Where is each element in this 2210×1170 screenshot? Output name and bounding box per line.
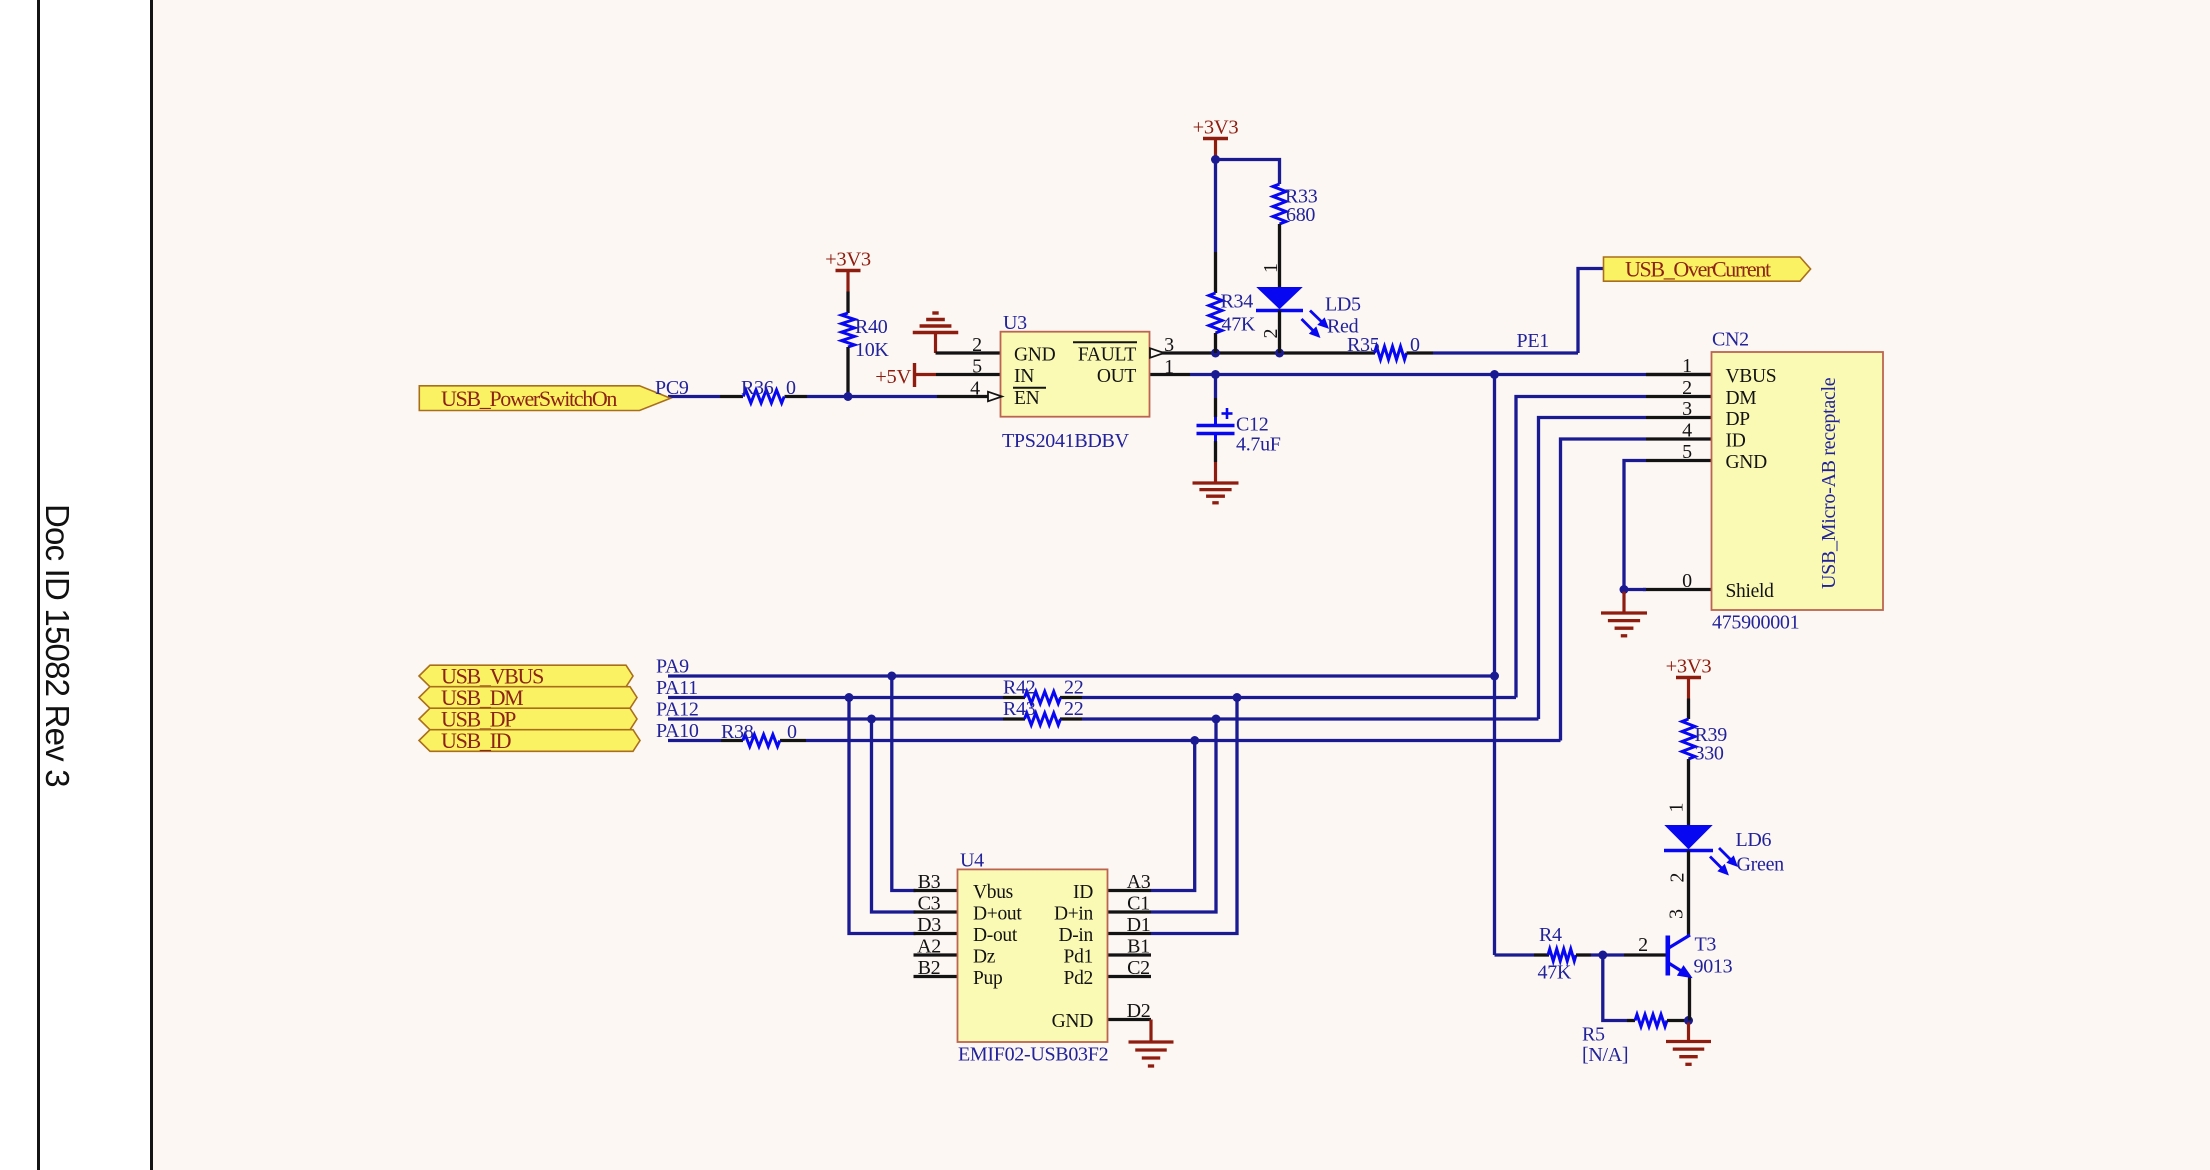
svg-text:22: 22 [1064, 698, 1083, 720]
svg-text:B3: B3 [918, 871, 941, 893]
svg-text:D3: D3 [917, 914, 941, 936]
svg-text:TPS2041BDBV: TPS2041BDBV [1002, 430, 1130, 452]
svg-text:2: 2 [1682, 377, 1692, 399]
svg-text:USB_PowerSwitchOn: USB_PowerSwitchOn [441, 386, 617, 411]
svg-text:D+out: D+out [973, 904, 1022, 925]
svg-text:Green: Green [1737, 854, 1785, 876]
svg-text:A3: A3 [1127, 871, 1151, 893]
svg-text:C12: C12 [1236, 414, 1268, 436]
svg-text:1: 1 [1682, 355, 1692, 377]
svg-text:Doc ID 15082 Rev 3: Doc ID 15082 Rev 3 [39, 504, 76, 787]
svg-text:U3: U3 [1003, 312, 1027, 334]
svg-text:IN: IN [1014, 366, 1034, 387]
svg-text:4: 4 [1682, 420, 1692, 442]
svg-text:1: 1 [1666, 803, 1688, 813]
svg-text:4: 4 [970, 378, 980, 400]
svg-text:U4: U4 [960, 850, 984, 872]
svg-text:EMIF02-USB03F2: EMIF02-USB03F2 [958, 1044, 1108, 1066]
svg-text:D2: D2 [1127, 1000, 1151, 1022]
svg-text:0: 0 [786, 377, 796, 399]
svg-text:R43: R43 [1003, 698, 1036, 720]
svg-text:Dz: Dz [973, 947, 996, 968]
svg-text:Pd1: Pd1 [1064, 947, 1093, 968]
svg-text:2: 2 [1667, 873, 1689, 883]
svg-text:C1: C1 [1127, 893, 1150, 915]
svg-text:R36: R36 [741, 377, 774, 399]
svg-text:DM: DM [1726, 388, 1757, 409]
svg-text:USB_Micro-AB receptacle: USB_Micro-AB receptacle [1818, 377, 1840, 589]
svg-text:22: 22 [1064, 677, 1083, 699]
svg-text:0: 0 [1682, 570, 1692, 592]
svg-text:+3V3: +3V3 [1193, 117, 1239, 139]
svg-text:3: 3 [1682, 398, 1692, 420]
svg-text:5: 5 [1682, 441, 1692, 463]
svg-text:D1: D1 [1127, 914, 1151, 936]
svg-text:PE1: PE1 [1517, 330, 1549, 352]
svg-text:Pd2: Pd2 [1064, 968, 1093, 989]
svg-text:ID: ID [1726, 431, 1746, 452]
svg-text:Pup: Pup [973, 968, 1002, 989]
svg-text:R5: R5 [1582, 1024, 1605, 1046]
svg-text:475900001: 475900001 [1712, 612, 1799, 634]
svg-text:+5V: +5V [875, 366, 911, 388]
svg-text:ID: ID [1073, 882, 1093, 903]
svg-text:C2: C2 [1127, 957, 1150, 979]
svg-text:1: 1 [1164, 356, 1174, 378]
svg-text:1: 1 [1260, 263, 1282, 273]
svg-text:EN: EN [1014, 388, 1040, 409]
svg-text:PA10: PA10 [656, 720, 699, 742]
svg-text:R35: R35 [1347, 334, 1380, 356]
svg-text:47K: 47K [1538, 962, 1572, 984]
svg-text:5: 5 [972, 356, 982, 378]
svg-text:GND: GND [1052, 1011, 1094, 1032]
svg-text:B1: B1 [1127, 936, 1150, 958]
svg-text:4.7uF: 4.7uF [1236, 434, 1281, 456]
svg-text:C3: C3 [918, 893, 941, 915]
svg-text:PA12: PA12 [656, 699, 699, 721]
svg-text:R42: R42 [1003, 677, 1035, 699]
svg-text:FAULT: FAULT [1078, 345, 1136, 366]
svg-text:2: 2 [1638, 934, 1648, 956]
svg-text:GND: GND [1726, 452, 1768, 473]
svg-text:LD5: LD5 [1325, 294, 1361, 316]
svg-text:+3V3: +3V3 [1666, 656, 1712, 678]
svg-text:DP: DP [1726, 409, 1751, 430]
svg-text:R34: R34 [1221, 291, 1254, 313]
svg-text:R38: R38 [721, 721, 754, 743]
svg-text:10K: 10K [855, 339, 889, 361]
svg-text:GND: GND [1014, 345, 1056, 366]
svg-text:VBUS: VBUS [1726, 366, 1777, 387]
svg-text:LD6: LD6 [1736, 829, 1772, 851]
svg-text:R4: R4 [1539, 924, 1562, 946]
svg-text:+3V3: +3V3 [825, 249, 871, 271]
svg-text:2: 2 [972, 334, 982, 356]
svg-text:3: 3 [1164, 334, 1174, 356]
svg-text:USB_OverCurrent: USB_OverCurrent [1625, 257, 1771, 282]
svg-text:680: 680 [1286, 204, 1315, 226]
svg-text:9013: 9013 [1694, 956, 1733, 978]
svg-text:D+in: D+in [1054, 904, 1094, 925]
svg-text:3: 3 [1666, 909, 1688, 919]
svg-text:47K: 47K [1222, 314, 1256, 336]
svg-text:R40: R40 [855, 316, 888, 338]
svg-text:D-in: D-in [1058, 925, 1093, 946]
svg-text:T3: T3 [1695, 934, 1717, 956]
svg-text:PC9: PC9 [655, 377, 689, 399]
svg-text:USB_ID: USB_ID [441, 728, 511, 753]
svg-text:330: 330 [1695, 743, 1724, 765]
svg-text:0: 0 [787, 721, 797, 743]
svg-text:B2: B2 [918, 957, 941, 979]
svg-text:PA11: PA11 [656, 677, 698, 699]
svg-text:OUT: OUT [1097, 366, 1137, 387]
svg-text:A2: A2 [917, 936, 941, 958]
svg-text:Vbus: Vbus [973, 882, 1013, 903]
svg-text:D-out: D-out [973, 925, 1018, 946]
svg-text:0: 0 [1410, 334, 1420, 356]
svg-text:2: 2 [1260, 329, 1282, 339]
svg-text:PA9: PA9 [656, 656, 689, 678]
svg-text:CN2: CN2 [1712, 329, 1749, 351]
svg-text:[N/A]: [N/A] [1582, 1044, 1628, 1066]
svg-text:Shield: Shield [1726, 581, 1775, 602]
